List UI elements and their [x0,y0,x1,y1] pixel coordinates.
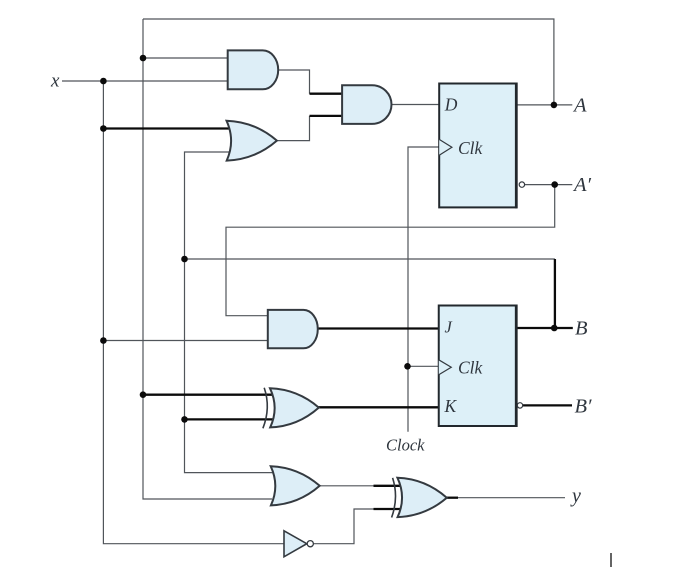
OR gate G2 [227,121,277,161]
wire vertical x-bus down to inverter [103,81,284,544]
wire AND G1 output [278,70,309,94]
wire A output [516,104,572,106]
wire clock branch to JK Clk [408,365,439,367]
wire B' output [523,404,572,406]
D flip-flop U1 Q' bubble [519,182,524,187]
XOR gate G7 body [270,388,319,427]
wire x thick branch to OR G2 top input [103,127,230,129]
wire inverter output to XOR G6 [314,509,379,544]
wire Clock vertical [408,147,439,432]
wire B output [516,327,573,329]
D flip-flop U1 [439,83,516,209]
AND gate G3 [268,310,318,348]
wire A' output [525,184,573,186]
D flip-flop U1 clock wedge [439,139,452,155]
wire x input [62,80,228,82]
wire x branch to AND G3 [103,340,268,342]
svg-text:B′: B′ [575,396,593,418]
wire AND G4 output to D [392,104,440,106]
svg-text:D: D [444,95,458,115]
svg-text:A′: A′ [572,174,592,196]
wire B feedback horizontal [185,258,555,260]
svg-text:y: y [570,485,581,507]
wire OR G5 output [320,485,376,487]
junction x input [100,78,107,85]
JK flip-flop U2 clock wedge [439,360,452,375]
wire B branch to XOR G7 bottom input [185,418,275,420]
wire A-feedback vertical to OR G5 [143,19,272,499]
junction B to XOR G7 [181,416,188,423]
svg-text:Clk: Clk [458,358,484,378]
wire thick stub into AND G4 top input [310,93,343,95]
JK flip-flop U2 Q' bubble [517,403,522,408]
wire A branch to AND G1 top input [143,57,228,59]
AND gate G1 [228,50,279,89]
wire A' feedback to AND G3 [226,185,555,316]
wire OR G2 output [277,116,310,141]
svg-text:A: A [572,95,587,117]
XOR gate G7 input arc [263,388,267,429]
junction clock [404,363,411,370]
wire thick stub XOR G6 top input [374,485,402,487]
wire thick stub XOR G6 bottom input [374,508,402,510]
XOR gate G6 body [397,478,446,517]
junction node B [551,325,558,332]
inverter G8 [284,531,307,557]
junction x to OR G2 [100,125,107,132]
junction A to XOR G7 [140,391,147,398]
svg-text:Clock: Clock [386,436,425,455]
cursor artifact [610,553,612,567]
junction B feedback [181,256,188,263]
junction x to AND G3 [100,337,107,344]
wire XOR G7 output to K input [318,406,438,408]
JK flip-flop U2 [439,305,517,428]
junction node A' [551,181,558,188]
AND gate G4 [342,85,391,124]
wire B feedback vertical thick [554,259,556,328]
svg-text:B: B [575,318,588,340]
wire XOR G6 output stub [447,497,458,499]
wire top feedback from A [143,19,554,105]
XOR gate G6 input arc [392,478,396,518]
svg-text:J: J [445,318,453,337]
wire B-bus vertical with OR G2 and OR G5 branches [185,152,274,473]
svg-text:x: x [50,71,60,92]
junction node A [551,102,558,109]
OR gate G5 [271,466,320,505]
inverter G8 bubble [307,541,313,547]
junction A to AND G1 [140,55,147,62]
svg-text:Clk: Clk [458,138,484,158]
wire thick stub into AND G4 bottom input [310,115,343,117]
svg-text:K: K [444,396,458,416]
wire A branch to XOR G7 top input [143,394,275,396]
wire y output [457,497,565,499]
wire AND G3 output to J input [317,327,439,329]
